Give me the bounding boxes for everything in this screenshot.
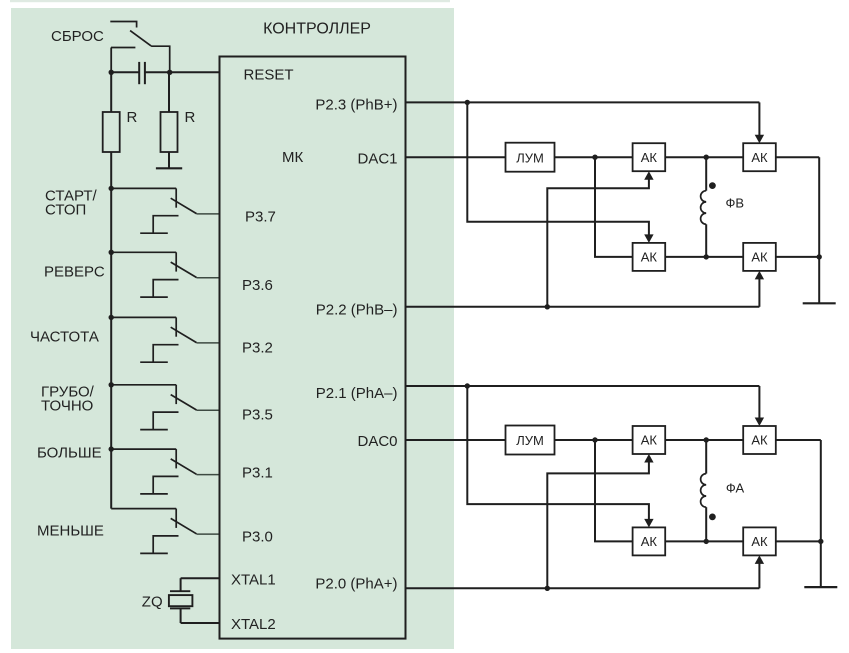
svg-text:XTAL1: XTAL1: [231, 572, 276, 589]
motor key AK upper-right phase B — body: [743, 143, 776, 171]
node winding top phase A: [704, 437, 709, 442]
wire ЛУМ to upper-left key phase B: [555, 156, 633, 158]
node B (right RESET node): [167, 70, 172, 75]
svg-text:СТОП: СТОП: [45, 202, 86, 219]
wire phase A minus branch to upper-left key: [547, 459, 649, 588]
node winding bottom phase A: [704, 539, 709, 544]
junction rail phase B: [817, 254, 822, 259]
svg-text:ZQ: ZQ: [142, 594, 163, 611]
wire winding top to upper-right key phase A: [706, 439, 743, 441]
wire phase B minus-phase from controller: [406, 306, 760, 308]
junction phase B DAC: [592, 155, 597, 160]
wire bus branch SB7 МЕНЬШЕ: [111, 508, 176, 510]
pushbutton SB4 ЧАСТОТА — blade: [171, 327, 197, 342]
crystal ZQ — top plate: [170, 590, 190, 592]
wire phase B plus-phase from controller: [406, 101, 760, 103]
junction phase A plus-phase: [465, 383, 470, 388]
wire bus top to SB1 lower contact: [110, 48, 112, 73]
resistor R2 body: [161, 112, 178, 152]
wire phase B DAC to PWM shaper: [406, 156, 506, 158]
wire winding bottom to lower-right key phase A: [706, 540, 743, 542]
svg-text:DAC0: DAC0: [357, 433, 397, 450]
wire lower-left key to winding bottom phase B: [665, 256, 706, 258]
wire lower-left key to winding bottom phase A: [665, 540, 706, 542]
PWM shaper U-ЛУМ phase A — body: [506, 426, 555, 455]
svg-text:P3.0: P3.0: [242, 529, 273, 546]
node A (left RESET node): [109, 70, 114, 75]
wire SB4 ЧАСТОТА output to pin: [197, 342, 220, 344]
svg-text:P3.2: P3.2: [242, 340, 273, 357]
wire capacitor to node B: [145, 71, 170, 73]
wire bus branch SB6 БОЛЬШЕ: [111, 448, 176, 450]
svg-text:ЧАСТОТА: ЧАСТОТА: [30, 329, 99, 346]
junction on bus for SB6 БОЛЬШЕ: [109, 446, 114, 451]
ground phase B: [803, 302, 836, 304]
junction on bus for SB2 СТАРТ/СТОП: [109, 186, 114, 191]
pushbutton SB3 РЕВЕРС — fixed contact stub: [175, 252, 177, 271]
pushbutton SB3 РЕВЕРС — blade: [171, 262, 197, 277]
wire phase B minus branch to upper-left key: [547, 176, 649, 307]
wire XTAL1 pin: [181, 577, 220, 579]
wire phase A DAC branch to lower-left key: [595, 440, 633, 541]
wire node A to capacitor: [111, 71, 139, 73]
pushbutton SB5 ГРУБО/ТОЧНО — fixed contact stub: [175, 385, 177, 404]
svg-text:ЛУМ: ЛУМ: [516, 433, 544, 448]
motor key AK upper-left phase B — body: [633, 143, 666, 171]
phase winding ФВ — coil: [701, 191, 707, 225]
wire phase B DAC branch to lower-left key: [595, 157, 633, 257]
junction phase A minus-phase: [545, 586, 550, 591]
arrow into AK lower-right phase A: [755, 555, 764, 564]
pushbutton SB4 ЧАСТОТА — actuator bar: [153, 345, 178, 363]
pushbutton SB6 БОЛЬШЕ — fixed contact stub: [175, 449, 177, 468]
svg-text:R: R: [185, 109, 196, 126]
wire XTAL2 pin: [181, 622, 220, 624]
pushbutton SB2 СТАРТ/СТОП — blade: [171, 198, 197, 213]
arrow into AK upper-left phase B: [644, 171, 653, 180]
wire RESET pin: [170, 71, 220, 73]
svg-text:ФА: ФА: [726, 481, 745, 496]
motor key AK upper-right phase A — body: [743, 426, 776, 454]
wire phase A plus to upper-right key (down): [758, 386, 760, 421]
capacitor C1 plates: [138, 62, 140, 84]
microcontroller U1 МК — body: [220, 57, 406, 639]
wire lower-right key to rail phase B: [776, 256, 819, 258]
ground (below R2): [156, 167, 182, 169]
wire upper-right key to supply rail phase B: [776, 156, 819, 158]
svg-text:P2.2 (PhB–): P2.2 (PhB–): [316, 301, 398, 318]
svg-text:СБРОС: СБРОС: [51, 28, 104, 45]
pushbutton SB7 МЕНЬШЕ — actuator bar: [153, 536, 178, 554]
motor key AK lower-right phase A — body: [743, 527, 776, 555]
wire node A down to R1: [110, 72, 112, 112]
pushbutton SB6 БОЛЬШЕ — blade: [171, 459, 197, 474]
wire upper-left key to winding top phase B: [665, 156, 706, 158]
wire SB5 ГРУБО/ТОЧНО output to pin: [197, 409, 220, 411]
svg-text:ТОЧНО: ТОЧНО: [41, 398, 93, 415]
wire ЛУМ to upper-left key phase A: [555, 439, 633, 441]
ground phase A: [804, 586, 837, 588]
junction rail phase A: [818, 539, 823, 544]
wire winding top to upper-right key phase B: [706, 156, 743, 158]
pushbutton SB4 ЧАСТОТА — fixed contact stub: [175, 317, 177, 336]
node winding bottom phase B: [704, 254, 709, 259]
svg-text:P2.1 (PhA–): P2.1 (PhA–): [316, 385, 398, 402]
svg-text:АК: АК: [641, 534, 658, 549]
wire upper-right key to supply rail phase A: [776, 439, 821, 441]
motor key AK lower-left phase A — body: [633, 527, 666, 555]
pushbutton SB2 СТАРТ/СТОП — button cap: [140, 232, 168, 234]
svg-text:МЕНЬШЕ: МЕНЬШЕ: [37, 523, 104, 540]
svg-text:P3.7: P3.7: [245, 209, 276, 226]
wire node B down to R2: [168, 72, 170, 112]
arrow into AK lower-left phase A: [644, 519, 653, 528]
wire winding bottom to lower-right key phase B: [706, 256, 743, 258]
wire phase B plus to upper-right key (down): [758, 102, 760, 138]
arrow into AK lower-left phase B: [644, 234, 653, 243]
svg-text:АК: АК: [751, 534, 768, 549]
wire phase A plus-phase from controller: [406, 385, 760, 387]
wire upper-left key to winding top phase A: [665, 439, 706, 441]
wire bus branch SB2 СТАРТ/СТОП: [111, 187, 176, 189]
svg-text:АК: АК: [641, 433, 658, 448]
motor key AK upper-left phase A — body: [633, 426, 666, 454]
phase winding ФВ — leads: [705, 157, 707, 191]
pushbutton SB1 СБРОС — blade: [130, 31, 151, 46]
wire bus R1 down to МЕНЬШЕ corner: [110, 152, 112, 509]
pushbutton SB1 СБРОС — upper fixed contact: [110, 22, 136, 28]
wire supply rail phase B: [818, 157, 820, 303]
pushbutton SB5 ГРУБО/ТОЧНО — button cap: [140, 429, 168, 431]
wire R2 to ground: [168, 152, 170, 168]
svg-text:МК: МК: [282, 149, 303, 166]
wire bus branch SB4 ЧАСТОТА: [111, 316, 176, 318]
svg-text:XTAL2: XTAL2: [231, 616, 276, 633]
phase winding ФА — coil: [701, 474, 707, 508]
svg-text:АК: АК: [751, 433, 768, 448]
arrow into AK upper-left phase A: [644, 454, 653, 463]
phase winding ФА — polarity dot: [709, 514, 716, 521]
pushbutton SB6 БОЛЬШЕ — actuator bar: [153, 476, 178, 494]
wire bus branch SB5 ГРУБО/ТОЧНО: [111, 384, 176, 386]
wire phase A minus to lower-right key (up): [758, 560, 760, 588]
svg-text:АК: АК: [641, 150, 658, 165]
svg-text:АК: АК: [751, 150, 768, 165]
wire SB7 МЕНЬШЕ output to pin: [197, 533, 220, 535]
junction phase A DAC: [592, 437, 597, 442]
motor key AK lower-left phase B — body: [633, 243, 666, 271]
pushbutton SB7 МЕНЬШЕ — fixed contact stub: [175, 509, 177, 528]
node winding top phase B: [704, 155, 709, 160]
wire phase A minus-phase from controller: [406, 587, 760, 589]
pushbutton SB5 ГРУБО/ТОЧНО — actuator bar: [153, 412, 178, 430]
junction phase B plus-phase: [465, 100, 470, 105]
svg-text:P3.5: P3.5: [242, 407, 273, 424]
phase winding ФВ — polarity dot: [709, 182, 716, 189]
svg-text:P3.1: P3.1: [242, 465, 273, 482]
arrow into AK lower-right phase B: [755, 271, 764, 280]
wire SB6 БОЛЬШЕ output to pin: [197, 474, 220, 476]
pushbutton SB4 ЧАСТОТА — button cap: [140, 361, 168, 363]
svg-text:P2.3 (PhB+): P2.3 (PhB+): [315, 96, 397, 113]
wire phase A plus branch to lower-left key: [467, 386, 649, 522]
pushbutton SB1 СБРОС — lower fixed contact: [111, 47, 135, 49]
svg-text:P2.0 (PhA+): P2.0 (PhA+): [315, 576, 397, 593]
motor key AK lower-right phase B — body: [743, 243, 776, 271]
svg-text:DAC1: DAC1: [357, 150, 397, 167]
junction on bus for SB4 ЧАСТОТА: [109, 315, 114, 320]
pushbutton SB6 БОЛЬШЕ — button cap: [140, 493, 168, 495]
junction on bus for SB3 РЕВЕРС: [109, 250, 114, 255]
pushbutton SB2 СТАРТ/СТОП — fixed contact stub: [175, 188, 177, 207]
svg-text:БОЛЬШЕ: БОЛЬШЕ: [37, 445, 102, 462]
svg-text:АК: АК: [751, 250, 768, 265]
svg-text:P3.6: P3.6: [242, 277, 273, 294]
crystal ZQ — body: [169, 595, 193, 606]
wire supply rail phase A: [820, 440, 822, 587]
wire lower-right key to rail phase A: [776, 540, 821, 542]
wire phase A DAC to PWM shaper: [406, 439, 506, 441]
wire XTAL1 down to crystal: [180, 578, 182, 591]
svg-text:АК: АК: [641, 250, 658, 265]
svg-text:РЕВЕРС: РЕВЕРС: [44, 264, 105, 281]
arrow into AK upper-right phase B: [755, 135, 764, 144]
svg-text:R: R: [127, 109, 138, 126]
pushbutton SB2 СТАРТ/СТОП — actuator bar: [153, 216, 178, 234]
PWM shaper U-ЛУМ phase B — body: [506, 143, 555, 172]
svg-text:КОНТРОЛЛЕР: КОНТРОЛЛЕР: [263, 20, 371, 37]
svg-text:RESET: RESET: [244, 67, 294, 84]
pushbutton SB7 МЕНЬШЕ — blade: [171, 518, 197, 533]
junction phase B minus-phase: [545, 304, 550, 309]
wire phase B plus branch to lower-left key: [467, 102, 649, 238]
wire SB2 СТАРТ/СТОП output to pin: [197, 213, 220, 215]
phase winding ФА — leads: [705, 440, 707, 474]
junction on bus for SB5 ГРУБО/ТОЧНО: [109, 382, 114, 387]
resistor R1 body: [103, 112, 120, 152]
wire bus branch SB3 РЕВЕРС: [111, 251, 176, 253]
wire SB1 output to RESET node: [151, 46, 170, 72]
pushbutton SB7 МЕНЬШЕ — button cap: [140, 552, 168, 554]
pushbutton SB5 ГРУБО/ТОЧНО — blade: [171, 395, 197, 410]
pushbutton SB3 РЕВЕРС — actuator bar: [153, 280, 178, 298]
svg-text:ЛУМ: ЛУМ: [516, 150, 544, 165]
wire phase B minus to lower-right key (up): [758, 276, 760, 307]
pushbutton SB3 РЕВЕРС — button cap: [140, 296, 168, 298]
arrow into AK upper-right phase A: [755, 418, 764, 427]
crystal ZQ — bottom plate: [170, 607, 190, 609]
wire crystal down to XTAL2: [180, 608, 182, 623]
svg-text:ФВ: ФВ: [726, 196, 745, 211]
wire SB3 РЕВЕРС output to pin: [197, 277, 220, 279]
